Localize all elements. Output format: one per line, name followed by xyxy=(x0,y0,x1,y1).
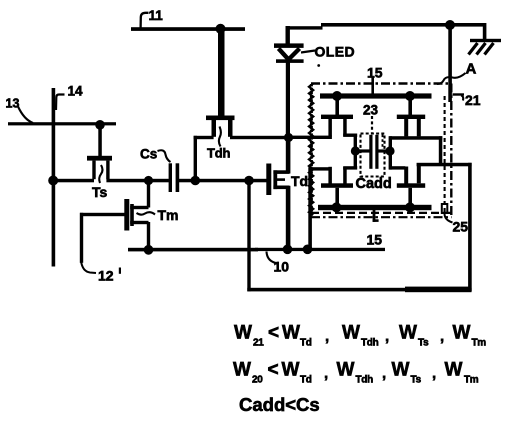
label Ts leader xyxy=(99,165,102,183)
svg-text:W: W xyxy=(453,323,471,344)
svg-text:W: W xyxy=(234,323,252,344)
svg-text:<: < xyxy=(268,360,279,381)
transistor T21d left stub xyxy=(404,167,408,184)
OLED D1 anode stem xyxy=(286,26,290,45)
node junction bottom bus right xyxy=(405,202,415,212)
capacitor Cs left plate xyxy=(169,163,172,192)
dashed box A hatched left edge overlay xyxy=(310,84,313,215)
svg-text:13: 13 xyxy=(6,97,20,111)
svg-text:Ts: Ts xyxy=(411,374,422,385)
label 10 leader xyxy=(267,252,277,264)
svg-text:15: 15 xyxy=(367,232,383,248)
wire T21d left lead xyxy=(389,166,405,169)
transistor T21c right stub xyxy=(343,167,347,184)
node junction at line 11 / wire 21 xyxy=(445,20,455,30)
electrode 23 inner dashed tail xyxy=(382,135,384,150)
label 23 dashed leader xyxy=(371,116,373,133)
label Tm leader xyxy=(137,212,156,214)
label 11 leader hook xyxy=(141,13,149,28)
wire storage node line seg C xyxy=(179,179,268,183)
dashed box A inner right dashed line xyxy=(444,96,446,215)
transistor T21c gate bar xyxy=(321,183,353,188)
transistor T21c left stub xyxy=(328,167,332,184)
capacitor Cadd right plate xyxy=(375,135,378,169)
svg-text:,: , xyxy=(324,365,328,382)
label 25 loop xyxy=(442,204,448,213)
svg-text:Tm: Tm xyxy=(158,207,179,223)
svg-text:Cadd: Cadd xyxy=(356,176,392,192)
OLED D1 cathode bar xyxy=(276,59,304,63)
transistor T21c gate wire xyxy=(335,188,339,206)
svg-text:10: 10 xyxy=(274,259,290,275)
transistor Tdh left stub xyxy=(212,120,217,137)
wire line 10 left part xyxy=(128,248,258,252)
dashed box A top edge xyxy=(311,82,452,84)
wire power line 11 right segment to ground xyxy=(321,23,486,27)
wire Ts gate vertical xyxy=(98,125,102,157)
label 13 leader xyxy=(18,107,33,124)
OLED D1 triangle xyxy=(279,49,300,60)
svg-text:23: 23 xyxy=(363,103,379,118)
label Cs leader xyxy=(158,150,171,162)
svg-text:11: 11 xyxy=(149,8,164,23)
svg-text:14: 14 xyxy=(68,84,84,99)
wire Tdh left lead xyxy=(194,136,214,139)
shield bottom bus xyxy=(318,205,432,210)
label A leader xyxy=(437,73,466,84)
node junction on line 11 xyxy=(216,24,226,34)
svg-text:25: 25 xyxy=(453,219,469,235)
node junction line14/storage line xyxy=(48,176,58,186)
svg-text:21: 21 xyxy=(465,92,481,108)
wire 15 top lead xyxy=(371,77,374,94)
svg-text:Tdh: Tdh xyxy=(356,374,374,385)
svg-text:Td: Td xyxy=(300,374,312,385)
svg-text:15: 15 xyxy=(367,65,383,81)
svg-text:20: 20 xyxy=(252,374,263,385)
node junction bottom bus left xyxy=(332,202,342,212)
transistor Tm bottom wire xyxy=(147,222,150,251)
dashed box A bottom edge xyxy=(311,212,452,214)
label 21 leader xyxy=(453,93,465,95)
svg-text:21: 21 xyxy=(253,337,264,348)
wire feedback right vertical xyxy=(468,163,472,292)
svg-text:W: W xyxy=(392,360,410,381)
transistor Ts gate bar xyxy=(87,156,112,161)
node junction center right xyxy=(385,146,394,155)
wire OLED cathode down to node xyxy=(286,62,290,140)
svg-text:12: 12 xyxy=(98,268,114,284)
transistor Td bottom stub xyxy=(273,186,289,190)
svg-text:W: W xyxy=(337,360,355,381)
svg-text:W: W xyxy=(282,323,300,344)
wire T21c left lead xyxy=(310,167,330,170)
svg-text:A: A xyxy=(466,61,477,78)
wire T21b right vertical xyxy=(439,136,443,165)
svg-text:W: W xyxy=(233,360,251,381)
capacitor Cs right plate xyxy=(176,163,180,192)
svg-text:Tdh: Tdh xyxy=(207,146,230,161)
transistor Td channel xyxy=(273,170,277,189)
node junction Td source on line 10 xyxy=(283,245,293,255)
transistor Ts right stub xyxy=(106,161,109,180)
svg-text:Ts: Ts xyxy=(418,337,429,348)
svg-text:Tm: Tm xyxy=(472,337,487,348)
dashed box A hatched left edge xyxy=(309,84,313,216)
node junction Tdh left lead xyxy=(191,176,201,186)
wire Tdh right lead xyxy=(230,136,289,139)
transistor Ts left stub xyxy=(92,161,95,180)
transistor T21b gate bar xyxy=(397,115,425,119)
svg-text:OLED: OLED xyxy=(315,44,356,60)
transistor Tm vertical top wire xyxy=(147,181,150,208)
transistor Tdh gate bar xyxy=(206,116,235,121)
wire center right vertical xyxy=(389,136,392,169)
transistor Tm bottom stub xyxy=(130,221,148,224)
svg-text:Ts: Ts xyxy=(92,184,108,200)
transistor T21d gate wire xyxy=(408,188,412,206)
svg-text:Cadd<Cs: Cadd<Cs xyxy=(239,394,320,415)
wire thick feed to Tdh gate xyxy=(218,26,225,116)
transistor T21a right stub xyxy=(343,119,347,136)
wire center left vertical xyxy=(354,134,357,170)
wire T21a left lead to OLED node xyxy=(289,136,332,139)
wire 15 bottom lead xyxy=(373,209,376,222)
wire feedback bottom xyxy=(247,288,471,292)
transistor T21a gate wire xyxy=(335,98,339,116)
tick after 12 xyxy=(119,268,121,274)
speck xyxy=(317,64,320,67)
node junction top bus right xyxy=(405,91,415,101)
node junction OLED/Tdh xyxy=(284,133,293,142)
wire feedback left vertical xyxy=(247,181,250,292)
node junction center left xyxy=(351,146,360,155)
svg-text:W: W xyxy=(342,323,360,344)
dashed box A right edge xyxy=(450,84,452,216)
svg-text:W: W xyxy=(282,360,300,381)
node junction top bus left xyxy=(332,91,342,101)
wire bend to ground xyxy=(483,23,487,41)
node junction feedback branch xyxy=(244,176,254,186)
transistor Tm gate bar xyxy=(124,199,129,231)
transistor T21a left stub xyxy=(328,119,332,136)
dashed electrode 23 outline xyxy=(361,134,385,177)
wire center node right xyxy=(378,149,391,152)
wire center node left xyxy=(355,149,370,152)
shield top bus xyxy=(320,93,432,98)
transistor T21b right stub xyxy=(417,119,421,136)
wire Tm gate lead line 12 xyxy=(80,213,125,216)
svg-text:Td: Td xyxy=(300,337,312,348)
wire T21a right lead to node xyxy=(343,134,357,137)
node junction Ts gate on line 13 xyxy=(95,120,105,130)
svg-text:,: , xyxy=(440,328,444,345)
transistor Tm top stub xyxy=(130,206,148,209)
wire T21c right lead xyxy=(343,166,357,169)
wire T21b bottom lead xyxy=(389,136,442,140)
wire line 14 vertical xyxy=(52,88,56,267)
svg-text:,: , xyxy=(325,328,329,345)
transistor Tm channel xyxy=(130,204,134,226)
svg-text:Cs: Cs xyxy=(140,147,157,162)
node junction Tm branch xyxy=(144,176,153,185)
svg-text:W: W xyxy=(445,360,463,381)
ground xyxy=(470,39,501,42)
capacitor Cadd left plate xyxy=(369,135,372,169)
svg-text:,: , xyxy=(382,365,386,382)
OLED label leader xyxy=(301,51,315,53)
svg-text:Tm: Tm xyxy=(464,374,479,385)
svg-text:Td: Td xyxy=(291,173,308,189)
wire feedback top right horizontal xyxy=(417,163,472,167)
wire storage node line seg A xyxy=(53,179,94,183)
transistor T21b left stub xyxy=(404,119,408,136)
OLED D1 anode bar xyxy=(274,43,304,48)
svg-text:<: < xyxy=(268,323,279,344)
svg-text:,: , xyxy=(432,365,436,382)
svg-text:W: W xyxy=(399,323,417,344)
wire Td bottom stub down to line 10 xyxy=(286,186,291,251)
node junction Tm on line 10 xyxy=(144,245,154,255)
wire T21c lead down to line 10 xyxy=(308,167,312,248)
svg-text:Tdh: Tdh xyxy=(361,337,379,348)
node junction box lead on line 10 xyxy=(303,245,313,255)
transistor T21d gate bar xyxy=(397,183,425,188)
wire storage node line seg B xyxy=(106,179,168,183)
wire select line 13 xyxy=(8,122,116,125)
svg-text:,: , xyxy=(385,328,389,345)
label 14 leader xyxy=(56,95,65,111)
label Td tick xyxy=(276,178,285,181)
transistor T21d right stub xyxy=(417,163,421,183)
transistor T21a gate bar xyxy=(321,115,353,119)
wire power line 11 left segment xyxy=(131,27,245,31)
wire power line 11 right segment to OLED xyxy=(287,26,323,29)
transistor Td top stub xyxy=(273,170,289,174)
label 12 leader xyxy=(81,261,96,273)
transistor Tdh right stub xyxy=(228,120,233,137)
label 25 leader xyxy=(445,214,453,223)
wire line 10 right part xyxy=(255,248,385,251)
label Tdh leader xyxy=(219,127,221,147)
transistor T21b gate wire xyxy=(408,98,412,116)
wire node down to Td top stub xyxy=(286,137,291,174)
transistor Td gate bar xyxy=(266,164,271,196)
wire 21 vertical from line 11 xyxy=(448,23,452,102)
